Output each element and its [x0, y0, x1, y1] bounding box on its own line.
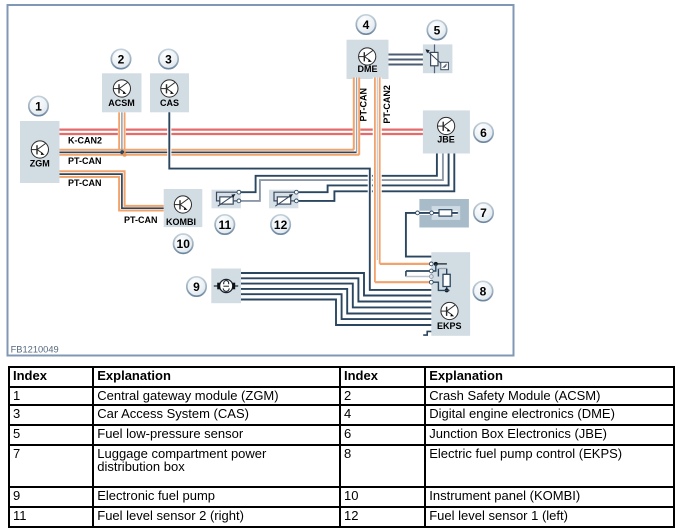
wire pump line 1 to EKPS pin — [241, 273, 431, 296]
svg-text:PT-CAN: PT-CAN — [68, 156, 102, 166]
wire pump line 5 to EKPS pin — [241, 294, 431, 319]
white background — [0, 0, 678, 362]
svg-text:ZGM: ZGM — [30, 158, 50, 168]
numbered ball 7 — [474, 203, 493, 222]
svg-text:9: 9 — [193, 280, 200, 294]
EKPS pin2 jumper link — [431, 264, 436, 271]
EKPS pin1 stub — [436, 263, 447, 265]
DME icon — [359, 48, 376, 65]
JBE icon — [438, 117, 455, 134]
sensor 5 small square P — [441, 62, 449, 69]
numbered ball 1 — [29, 96, 48, 115]
svg-text:4: 4 — [363, 18, 370, 32]
wire ZGM PT-CAN bus1 top orange to DME — [60, 78, 354, 150]
svg-text:3: 3 — [165, 52, 172, 66]
wire DME PT-CAN2 orange right to EKPS pin1 — [380, 78, 432, 264]
wire ACSM drop white casing — [118, 112, 126, 147]
numbered ball 5 — [427, 20, 446, 39]
svg-text:11: 11 — [218, 218, 231, 232]
wire ZGM PT-CAN bus2 navy middle to KOMBI — [60, 174, 164, 208]
wire CAS drop to EKPS pin — [169, 112, 431, 290]
svg-text:KOMBI: KOMBI — [166, 217, 196, 227]
numbered ball 6 — [474, 123, 493, 142]
numbered ball 8 — [473, 281, 492, 300]
box 7 pin circle outer — [416, 211, 420, 215]
svg-text:ACSM: ACSM — [108, 98, 135, 108]
EKPS bottom junction dot — [445, 288, 449, 292]
EKPS resistor bottom lead — [446, 287, 448, 291]
svg-text:PT-CAN2: PT-CAN2 — [382, 85, 392, 124]
wire ZGM PT-CAN bus2 top orange to KOMBI — [60, 171, 164, 206]
diagram frame border — [8, 5, 514, 356]
wire DME to sensor5 line 2 — [389, 59, 423, 61]
index table — [8, 366, 675, 528]
wire ZGM PT-CAN bus1 white band horizontal — [60, 148, 361, 156]
EKPS pin1 junction dot — [434, 262, 438, 266]
wire ZGM PT-CAN bus1 navy middle — [60, 151, 357, 153]
module DME box — [347, 40, 389, 79]
sensor 11 box (fuel level sensor 2) — [212, 190, 241, 209]
sensor 12 internals — [274, 192, 296, 206]
sensor 5 diagonal arrow — [428, 51, 444, 65]
wire ZGM PT-CAN bus1 gray vertical to DME — [356, 78, 358, 153]
svg-text:EKPS: EKPS — [437, 321, 462, 331]
EKPS relay throw line — [446, 269, 448, 275]
box 7 outer (luggage compartment power distribution box) — [419, 199, 469, 228]
numbered ball 2 — [111, 49, 130, 68]
wire JBE drop 3 to fuel level sensor 1 top pin — [299, 154, 449, 193]
wire DME PT-CAN2 white band vertical — [373, 78, 382, 262]
EKPS resistor body — [443, 274, 450, 286]
svg-text:7: 7 — [480, 206, 487, 220]
svg-text:1: 1 — [35, 99, 42, 113]
CAS icon — [161, 80, 178, 97]
module JBE box — [423, 110, 470, 153]
wire JBE drop 2 to fuel level sensor 2 bottom pin (light) — [241, 154, 443, 201]
EKPS pin4 link to resistor bottom — [431, 282, 449, 290]
numbered ball 4 — [356, 15, 375, 34]
wire DME to sensor5 line 3 — [389, 64, 423, 66]
svg-text:PT-CAN: PT-CAN — [68, 178, 102, 188]
numbered ball 10 — [174, 234, 193, 253]
node ACSM junction on orange — [123, 153, 127, 157]
ACSM icon — [113, 80, 130, 97]
wire ZGM PT-CAN bus1 bottom orange to DME — [60, 78, 360, 155]
svg-text:FB1210049: FB1210049 — [11, 345, 59, 355]
module ZGM box — [20, 121, 60, 183]
box 7 inner — [432, 206, 461, 220]
sensor 11 internals — [217, 192, 239, 206]
wire pump line 2 to EKPS pin — [241, 278, 431, 301]
svg-text:PT-CAN: PT-CAN — [124, 215, 158, 225]
svg-text:PT-CAN: PT-CAN — [358, 88, 368, 122]
pump 9 motor icon — [214, 279, 238, 292]
EKPS bottom shield step symbol — [423, 331, 431, 335]
sensor 11 pin circles — [237, 190, 241, 194]
sensor 5 internals: vertical line — [434, 44, 436, 73]
box 7 pin circle inner — [430, 211, 434, 215]
EKPS pin2 external U jumper — [406, 271, 431, 277]
node ACSM junction on navy — [120, 150, 124, 154]
module KOMBI box — [164, 189, 203, 227]
svg-text:2: 2 — [118, 52, 125, 66]
pump 9 box (electronic fuel pump) — [211, 269, 241, 304]
box 7 fuse body — [439, 210, 452, 216]
wire K-CAN2 red line a (ZGM to JBE) — [60, 127, 423, 131]
wire DME to sensor5 line 1 — [389, 54, 423, 56]
wire ACSM drop gray middle — [121, 112, 123, 152]
wire pump line 3 to EKPS pin — [241, 284, 431, 308]
svg-text:10: 10 — [177, 237, 191, 251]
sensor 5 box (fuel low-pressure sensor) — [423, 44, 453, 73]
EKPS relay top gray line — [438, 268, 446, 270]
wire DME PT-CAN2 orange left to EKPS pin4 — [375, 78, 431, 283]
KOMBI icon — [174, 196, 191, 213]
svg-text:JBE: JBE — [437, 135, 455, 145]
box 7 fuse line — [424, 212, 458, 214]
svg-text:12: 12 — [274, 218, 288, 232]
wire ACSM drop orange left — [118, 112, 120, 149]
numbered ball 11 — [215, 215, 234, 234]
wire ZGM PT-CAN bus2 white band — [60, 174, 164, 208]
numbered ball 9 — [187, 277, 206, 296]
sensor 12 box (fuel level sensor 1) — [269, 190, 298, 209]
EKPS pin circles — [429, 262, 433, 266]
svg-text:K-CAN2: K-CAN2 — [68, 136, 102, 146]
wire ZGM PT-CAN bus1 white band vertical — [353, 78, 361, 150]
wire pump line 6 to EKPS pin — [241, 300, 431, 326]
numbered ball 12 — [271, 215, 290, 234]
module EKPS box — [431, 252, 470, 336]
module ACSM box — [102, 73, 142, 112]
ZGM icon — [31, 141, 48, 158]
wire pump line 4 to EKPS pin — [241, 289, 431, 314]
module CAS box — [150, 73, 189, 112]
wire K-CAN2 red line b (ZGM to JBE) — [60, 132, 423, 136]
svg-text:8: 8 — [480, 284, 487, 298]
wire JBE drop 4 to fuel level sensor 1 bottom pin — [299, 154, 455, 201]
wire ZGM PT-CAN bus2 bottom orange to KOMBI — [60, 177, 164, 211]
wire ACSM drop orange right — [124, 112, 126, 155]
wire JBE drop 1 to fuel level sensor 2 top pin — [241, 154, 437, 193]
wire DME PT-CAN2 gray middle — [376, 78, 378, 261]
svg-text:6: 6 — [480, 126, 487, 140]
svg-text:CAS: CAS — [160, 98, 179, 108]
svg-text:DME: DME — [358, 64, 378, 74]
svg-text:5: 5 — [434, 23, 441, 37]
EKPS icon — [441, 302, 458, 319]
numbered ball 3 — [159, 49, 178, 68]
EKPS relay contact pole — [437, 269, 439, 277]
sensor 5 resistor body — [431, 52, 438, 65]
sensor 12 pin circles — [295, 190, 299, 194]
wire box7 line to EKPS top — [406, 213, 458, 257]
